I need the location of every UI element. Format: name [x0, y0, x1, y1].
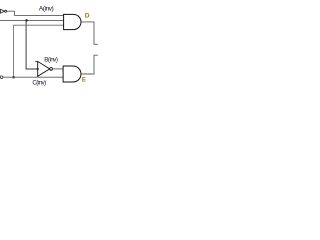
node B junction: [25, 19, 28, 22]
node C junction: [12, 76, 15, 79]
wire: net C horizontal to AND U4 input 2: [3, 76, 63, 78]
svg-text:D: D: [85, 13, 90, 20]
svg-text:C(inv): C(inv): [32, 80, 46, 87]
wire: net B vertical branch down to inverter U3 input: [26, 20, 38, 69]
wire: net C branch to AND U2 input 3: [14, 25, 64, 77]
AND gate U2 (top): [64, 14, 81, 29]
svg-text:A(inv): A(inv): [39, 6, 54, 13]
inverter U1 (tiny input inverter, top-left): [1, 9, 7, 13]
node at inverter U3 input: [37, 68, 39, 70]
wire: inverter U1 output to node A corner: [7, 11, 15, 15]
connector: input C terminal: [0, 76, 3, 79]
wire: AND U2 output net D: [81, 22, 98, 44]
AND gate U4 (bottom): [63, 66, 81, 82]
wire: AND U4 output net E: [81, 55, 98, 74]
wire: net B horizontal into AND U2 input 2: [0, 19, 64, 21]
wire: node A to AND U2 input 1: [14, 15, 63, 17]
inverter U3: [38, 61, 53, 76]
wire: inverter U3 output to AND U4 input 1: [53, 68, 64, 70]
svg-text:E: E: [82, 77, 86, 83]
inverter U3 stub: [35, 61, 38, 63]
svg-text:B(inv): B(inv): [44, 57, 58, 64]
